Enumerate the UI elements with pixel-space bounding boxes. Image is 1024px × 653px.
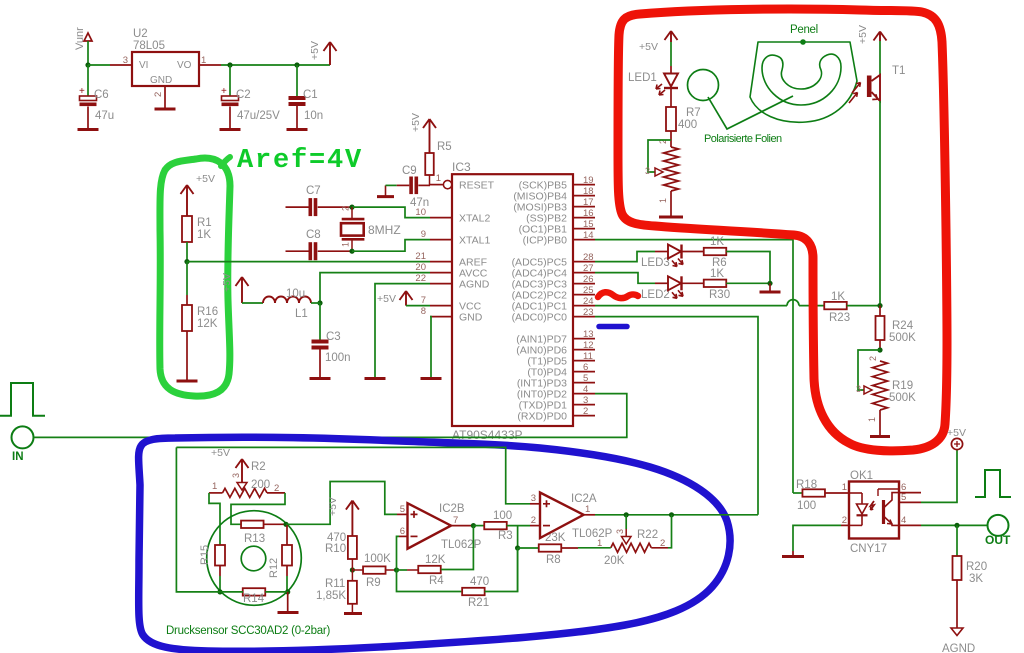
svg-text:24: 24 bbox=[583, 296, 594, 307]
resistor R16 12K bbox=[182, 305, 192, 331]
panel horseshoe foil bbox=[762, 54, 841, 105]
resistor R14 bbox=[243, 588, 266, 595]
IC3 pin 27 (ADC4)PC4 bbox=[573, 272, 595, 274]
capacitor C3 100n bbox=[312, 340, 329, 344]
svg-text:1: 1 bbox=[585, 504, 590, 515]
node AREF divider junction bbox=[184, 259, 189, 264]
node crystal top junction bbox=[349, 205, 354, 210]
wire R19 to ground bbox=[879, 410, 881, 435]
inductor L1 10u bbox=[263, 297, 311, 304]
OK1 lightning bolt bbox=[871, 501, 875, 510]
svg-text:Vunr: Vunr bbox=[74, 27, 86, 50]
ground under C2 bbox=[220, 128, 241, 131]
node R20 top bbox=[954, 523, 959, 528]
svg-text:4: 4 bbox=[583, 384, 588, 395]
svg-text:OUT: OUT bbox=[985, 533, 1011, 547]
capacitor C9 47n bbox=[397, 184, 410, 186]
ground under R11 bbox=[344, 612, 362, 615]
pin 6 OK1 bbox=[899, 492, 921, 494]
svg-text:15: 15 bbox=[583, 219, 594, 230]
svg-text:5: 5 bbox=[583, 373, 588, 384]
svg-text:GND: GND bbox=[150, 75, 172, 86]
pin 7 IC2B output bbox=[451, 525, 473, 527]
+5V supply arrow above R5 bbox=[423, 119, 436, 153]
svg-text:C1: C1 bbox=[303, 89, 318, 101]
wire +5V to LED1 bbox=[670, 42, 672, 66]
IC3 pin 18 (MISO)PB4 bbox=[573, 195, 595, 197]
wire R2 pin1 to bridge left bbox=[209, 493, 220, 545]
wire R3 to IC2A pin2 bbox=[507, 525, 530, 527]
svg-text:LED3: LED3 bbox=[641, 257, 670, 269]
resistor R18 100 bbox=[793, 492, 802, 494]
svg-text:R20: R20 bbox=[966, 561, 987, 573]
wire pin14 to optocoupler column bbox=[595, 240, 793, 493]
hand-drawn blue loop around pressure sensor circuit bbox=[139, 437, 730, 651]
wire crystal node to XTAL2 bbox=[352, 207, 430, 218]
IC3 pin 19 (SCK)PB5 bbox=[573, 184, 595, 186]
wire C1 to ground bbox=[296, 106, 298, 129]
svg-text:6: 6 bbox=[583, 362, 588, 373]
wire bridge bottom rail bbox=[220, 591, 243, 593]
sensor inner circle bbox=[241, 546, 266, 571]
svg-text:1: 1 bbox=[212, 481, 217, 492]
svg-text:100K: 100K bbox=[364, 553, 391, 565]
resistor R30 1K bbox=[682, 282, 705, 284]
pin 2 IC2A bbox=[530, 525, 540, 527]
pin 21 AREF bbox=[430, 261, 452, 263]
IC3 pin 26 (ADC3)PC3 bbox=[573, 283, 595, 285]
svg-text:L1: L1 bbox=[295, 308, 308, 320]
node C2 junction bbox=[227, 62, 232, 67]
pin 2 of U2 bbox=[164, 86, 166, 108]
IC3 pin 11 (T1)PD5 bbox=[573, 360, 595, 362]
svg-text:T1: T1 bbox=[892, 65, 905, 77]
svg-text:3: 3 bbox=[531, 493, 536, 504]
IC3 pin 14 (ICP)PB0 bbox=[573, 239, 595, 241]
svg-text:11: 11 bbox=[583, 351, 593, 362]
pin 10 XTAL2 bbox=[430, 217, 452, 219]
wire C9 to RESET pin bbox=[418, 184, 430, 186]
svg-text:17: 17 bbox=[583, 197, 594, 208]
wire R23 to node bbox=[847, 305, 880, 307]
wire R4 to IC2B output bbox=[441, 526, 473, 570]
svg-text:OK1: OK1 bbox=[850, 470, 873, 482]
wire R11 to ground bbox=[351, 604, 353, 613]
hand-drawn red loop around panel and R24/R19 bbox=[618, 9, 947, 451]
IC3 pin 5 (INT1)PD3 bbox=[573, 382, 595, 384]
+5V supply arrow above R2 bbox=[236, 459, 249, 482]
wire R3 node down to R8 bbox=[517, 526, 519, 592]
+5V supply arrow above L1 bbox=[236, 277, 249, 303]
svg-text:TL062P: TL062P bbox=[441, 539, 482, 551]
wire Vunr down bbox=[87, 41, 89, 65]
wire Vunr to U2 bbox=[88, 64, 110, 66]
wire R1 to junction bbox=[186, 242, 188, 262]
wire AREF bbox=[187, 261, 430, 263]
svg-text:C8: C8 bbox=[306, 229, 321, 241]
svg-text:2: 2 bbox=[868, 356, 878, 361]
svg-text:13: 13 bbox=[583, 329, 594, 340]
wire crystal node to XTAL1 bbox=[352, 240, 430, 252]
svg-text:9: 9 bbox=[421, 229, 426, 240]
svg-text:7: 7 bbox=[453, 515, 458, 526]
svg-text:GND: GND bbox=[459, 311, 483, 323]
resistor R9 100K bbox=[352, 569, 363, 571]
svg-text:R2: R2 bbox=[251, 461, 266, 473]
resistor R1 1K bbox=[182, 216, 192, 242]
wire R19 wiper loop bbox=[858, 350, 880, 390]
svg-text:IC2B: IC2B bbox=[439, 503, 465, 515]
svg-text:19: 19 bbox=[583, 175, 594, 186]
wire pin2 to ground bbox=[793, 525, 841, 551]
svg-text:C7: C7 bbox=[306, 185, 321, 197]
wire trimmer wiper loop bbox=[648, 140, 671, 172]
ground under pin 8 bbox=[421, 377, 442, 380]
capacitor C7 stub lead bbox=[286, 206, 309, 208]
svg-text:47u: 47u bbox=[95, 110, 114, 122]
svg-text:R30: R30 bbox=[709, 289, 730, 301]
+5V supply arrow top-left bbox=[324, 42, 337, 65]
crystal Q1 8MHZ bbox=[342, 218, 365, 221]
svg-text:LED2: LED2 bbox=[641, 289, 670, 301]
svg-text:VO: VO bbox=[177, 60, 192, 71]
svg-text:(ADC0)PC0: (ADC0)PC0 bbox=[512, 311, 568, 323]
svg-text:12K: 12K bbox=[197, 318, 218, 330]
trimmer R22 20K bbox=[622, 537, 632, 545]
ground under LED resistors bbox=[760, 291, 781, 294]
pointer lines to label bbox=[708, 96, 793, 129]
wire R20 to AGND bbox=[956, 580, 958, 628]
svg-text:R15: R15 bbox=[199, 545, 211, 565]
wire C3 to ground bbox=[319, 350, 321, 379]
resistor R10 470 bbox=[348, 536, 357, 559]
capacitor C7 bbox=[309, 198, 313, 216]
svg-text:XTAL2: XTAL2 bbox=[459, 212, 490, 224]
svg-text:2: 2 bbox=[842, 515, 847, 526]
trimmer resistor zigzag bbox=[664, 147, 679, 191]
svg-text:R22: R22 bbox=[637, 529, 658, 541]
svg-text:470: 470 bbox=[470, 576, 489, 588]
pin 7 VCC bbox=[430, 305, 452, 307]
port OUT bbox=[988, 515, 1009, 536]
wire R7 to trimmer bbox=[670, 131, 672, 147]
ground under C6 bbox=[78, 128, 99, 131]
svg-text:+: + bbox=[79, 86, 85, 97]
svg-text:RESET: RESET bbox=[459, 179, 495, 191]
ground under C3 bbox=[310, 377, 331, 380]
pin 2 OK1 bbox=[841, 524, 849, 526]
svg-text:R11: R11 bbox=[325, 578, 345, 590]
IC3 pin 12 (AIN0)PD6 bbox=[573, 349, 595, 351]
panel sketch outline bbox=[750, 42, 857, 122]
wire pin4 to OUT bbox=[921, 524, 988, 526]
wire AVCC bbox=[320, 273, 430, 303]
pin 3 IC2A bbox=[530, 503, 540, 505]
svg-text:VI: VI bbox=[139, 60, 148, 71]
svg-text:AGND: AGND bbox=[942, 643, 975, 653]
resistor R3 100 bbox=[473, 525, 484, 527]
red squiggle annotation at pin25 bbox=[598, 292, 638, 298]
svg-text:28: 28 bbox=[583, 252, 594, 263]
svg-text:R1: R1 bbox=[197, 217, 212, 229]
wire IN to pin4 bbox=[34, 394, 627, 438]
resistor R13 bbox=[241, 521, 263, 528]
output pulse symbol bbox=[975, 470, 1011, 497]
trimmer R2 200 bbox=[237, 483, 247, 491]
resistor R11 1,85K bbox=[351, 570, 353, 581]
svg-text:+5V: +5V bbox=[221, 273, 233, 292]
svg-text:3: 3 bbox=[123, 55, 128, 66]
wire GND pin down bbox=[430, 317, 431, 378]
svg-text:3: 3 bbox=[231, 473, 241, 478]
node bridge bottom-left bbox=[217, 589, 222, 594]
wire crystal stems bbox=[351, 207, 353, 219]
svg-text:1K: 1K bbox=[197, 229, 211, 241]
node bridge right bbox=[283, 522, 288, 527]
pin 9 XTAL1 bbox=[430, 239, 452, 241]
resistor R6 1K bbox=[682, 251, 705, 253]
svg-text:+5V: +5V bbox=[410, 113, 422, 132]
resistor R4 12K bbox=[397, 569, 408, 571]
svg-text:IN: IN bbox=[12, 451, 24, 463]
node R8 tap bbox=[515, 545, 520, 550]
resistor R20 3K bbox=[956, 525, 958, 556]
svg-text:10n: 10n bbox=[304, 110, 323, 122]
svg-text:1: 1 bbox=[658, 198, 668, 203]
svg-text:U2: U2 bbox=[133, 28, 148, 40]
svg-text:27: 27 bbox=[583, 263, 594, 274]
svg-text:R10: R10 bbox=[325, 543, 346, 555]
svg-text:2: 2 bbox=[583, 406, 588, 417]
pin 6 IC2B bbox=[399, 535, 408, 537]
+5V supply arrow at VCC bbox=[400, 291, 413, 306]
resistor R21 470 bbox=[462, 588, 485, 595]
port IN bbox=[12, 426, 34, 448]
svg-text:R14: R14 bbox=[243, 593, 265, 605]
OK1 internal phototransistor bbox=[882, 500, 885, 524]
node panel top bbox=[800, 39, 806, 45]
svg-text:XTAL1: XTAL1 bbox=[459, 234, 490, 246]
IC3 pin 23 (ADC0)PC0 bbox=[573, 316, 595, 318]
svg-text:R9: R9 bbox=[366, 577, 381, 589]
wire pin27 to LED2 bbox=[595, 273, 655, 284]
ground under OK1 bbox=[792, 551, 794, 556]
optocoupler OK1 CNY17 bbox=[849, 482, 899, 539]
capacitor C6 47u bbox=[80, 96, 97, 101]
resistor R24 500K bbox=[879, 306, 881, 316]
trimmer R19 500K zigzag bbox=[873, 361, 888, 410]
svg-text:+5V: +5V bbox=[639, 41, 658, 53]
svg-text:100: 100 bbox=[797, 500, 816, 512]
svg-text:2: 2 bbox=[153, 92, 164, 97]
wire T1 emitter down bbox=[879, 101, 881, 306]
ground left of C9 bbox=[377, 195, 394, 198]
wire +5V to L1 bbox=[242, 302, 263, 304]
wire bridge left side bbox=[176, 447, 220, 592]
svg-text:LED1: LED1 bbox=[628, 72, 657, 84]
IC3 pin 3 (TXD)PD1 bbox=[573, 404, 595, 406]
wire C7 to crystal node bbox=[318, 206, 352, 208]
IC3 pin 28 (ADC5)PC5 bbox=[573, 261, 595, 263]
svg-text:1K: 1K bbox=[710, 236, 724, 248]
ground under bridge bbox=[287, 592, 289, 612]
wire bridge right node to IC2B pin5 bbox=[286, 482, 397, 525]
hand-drawn green loop around R1/R16 bbox=[160, 158, 230, 396]
wire pin28 to LED3 bbox=[595, 252, 655, 262]
svg-text:1K: 1K bbox=[831, 291, 845, 303]
wire C8 to crystal node bbox=[318, 250, 352, 252]
svg-text:1,85K: 1,85K bbox=[316, 590, 346, 602]
svg-text:IC2A: IC2A bbox=[571, 493, 597, 505]
svg-text:R19: R19 bbox=[892, 380, 913, 392]
svg-text:+5V: +5V bbox=[947, 427, 966, 439]
svg-text:1: 1 bbox=[842, 482, 847, 493]
svg-text:47n: 47n bbox=[410, 197, 429, 209]
wire to C2 bbox=[229, 65, 231, 96]
svg-text:3: 3 bbox=[856, 384, 861, 394]
blue dash annotation at pin23 bbox=[599, 324, 627, 330]
IC3 pin 16 (SS)PB2 bbox=[573, 217, 595, 219]
wire R2 pin2 to R13 bbox=[231, 493, 285, 524]
svg-text:+5V: +5V bbox=[196, 173, 215, 185]
svg-text:23: 23 bbox=[583, 307, 594, 318]
wire to T1 collector bbox=[879, 41, 881, 75]
svg-text:Drucksensor SCC30AD2 (0-2bar): Drucksensor SCC30AD2 (0-2bar) bbox=[166, 625, 330, 637]
svg-text:R5: R5 bbox=[437, 141, 452, 153]
svg-text:1: 1 bbox=[867, 417, 877, 422]
svg-text:3: 3 bbox=[615, 529, 625, 534]
voltage regulator U2 78L05 bbox=[132, 52, 199, 86]
wire pin23 feedback bbox=[595, 317, 758, 515]
resistor R12 bbox=[286, 524, 288, 545]
IC3 pin 6 (T0)PD4 bbox=[573, 371, 595, 373]
wire VCC bbox=[406, 305, 430, 307]
svg-text:78L05: 78L05 bbox=[133, 40, 165, 52]
wire trimmer to ground bbox=[670, 191, 672, 216]
wire R13 to node bbox=[264, 523, 287, 525]
op-amp IC2A TL062P bbox=[540, 493, 584, 539]
resistor R7 400 bbox=[666, 107, 676, 131]
wire R30 to gnd node bbox=[726, 282, 770, 284]
svg-text:200: 200 bbox=[251, 479, 270, 491]
svg-text:(RXD)PD0: (RXD)PD0 bbox=[517, 410, 567, 422]
ground under U2 bbox=[155, 108, 176, 111]
node IC2B output bbox=[471, 523, 476, 528]
wire R16 to ground bbox=[186, 331, 188, 380]
wire R12 to bottom bbox=[286, 566, 288, 577]
phototransistor T1 bbox=[867, 76, 872, 98]
svg-text:3: 3 bbox=[645, 166, 650, 176]
+5V supply arrow above R10 bbox=[346, 501, 359, 536]
svg-text:12K: 12K bbox=[425, 554, 446, 566]
svg-text:1: 1 bbox=[436, 173, 441, 184]
svg-text:+5V: +5V bbox=[377, 293, 396, 305]
svg-text:+5V: +5V bbox=[211, 447, 230, 459]
svg-text:R3: R3 bbox=[498, 530, 513, 542]
pin 1 of U2 bbox=[199, 64, 221, 66]
svg-text:100n: 100n bbox=[325, 352, 351, 364]
wire R6 to gnd node bbox=[726, 252, 770, 284]
svg-text:3K: 3K bbox=[969, 573, 983, 585]
wire junction to C3 bbox=[319, 303, 321, 340]
svg-text:3: 3 bbox=[583, 395, 588, 406]
capacitor C8 bbox=[309, 242, 313, 260]
capacitor C2 47u/25V bbox=[222, 96, 239, 101]
pin 3 of U2 bbox=[110, 64, 132, 66]
svg-text:C3: C3 bbox=[326, 331, 341, 343]
svg-text:TL062P: TL062P bbox=[572, 528, 613, 540]
svg-text:R7: R7 bbox=[686, 107, 701, 119]
svg-text:22: 22 bbox=[415, 273, 426, 284]
svg-text:8MHZ: 8MHZ bbox=[368, 223, 401, 237]
IC3 pin 15 (OC1)PB1 bbox=[573, 228, 595, 230]
node R24 top bbox=[877, 303, 882, 308]
ground under C1 bbox=[287, 128, 308, 131]
input pulse symbol bbox=[0, 383, 45, 416]
wire C2 to ground bbox=[229, 107, 231, 130]
svg-text:8: 8 bbox=[421, 306, 426, 317]
svg-text:R12: R12 bbox=[268, 558, 280, 578]
wire R22 wiper bbox=[625, 515, 627, 529]
sensor bridge circle bbox=[207, 511, 302, 606]
svg-text:500K: 500K bbox=[889, 392, 916, 404]
svg-text:+5V: +5V bbox=[857, 25, 869, 44]
wire R21 to R8 node bbox=[485, 548, 518, 592]
wire IC2A output row bbox=[595, 514, 758, 516]
svg-text:R21: R21 bbox=[468, 597, 489, 609]
svg-text:R13: R13 bbox=[244, 533, 265, 545]
foil circle bbox=[688, 70, 719, 101]
wire to C6 bbox=[87, 65, 89, 96]
svg-text:16: 16 bbox=[583, 208, 594, 219]
node R22 wiper tap bbox=[624, 512, 629, 517]
svg-text:26: 26 bbox=[583, 274, 594, 285]
wire R22 pin2 up bbox=[668, 515, 672, 548]
svg-text:21: 21 bbox=[415, 251, 426, 262]
svg-text:1: 1 bbox=[341, 242, 351, 247]
wire R5 to reset bbox=[429, 175, 431, 185]
node R9 right bbox=[386, 569, 397, 571]
wire R9 node to IC2B pin6 bbox=[397, 536, 400, 570]
ground under AGND bbox=[365, 377, 386, 380]
wire junction to R16 bbox=[186, 262, 188, 295]
svg-text:CNY17: CNY17 bbox=[850, 543, 887, 555]
pin 1 IC2A output bbox=[584, 514, 595, 516]
svg-text:1K: 1K bbox=[710, 268, 724, 280]
+5V supply arrow above LED1 bbox=[665, 31, 678, 42]
node L1 junction bbox=[317, 300, 322, 305]
wire R15 to bottom bbox=[219, 566, 221, 577]
wire bridge top rail to IC2A bbox=[176, 447, 530, 503]
svg-text:+5V: +5V bbox=[309, 41, 321, 60]
resistor R23 1K bbox=[824, 302, 847, 309]
svg-text:5: 5 bbox=[400, 504, 405, 515]
pin 1 RESET with bubble bbox=[430, 184, 444, 186]
ground under trimmer bbox=[659, 216, 683, 219]
resistor R15 bbox=[215, 545, 225, 566]
trimmer wiper arrow bbox=[655, 168, 663, 176]
resistor R8 23K bbox=[518, 547, 539, 549]
svg-text:20K: 20K bbox=[604, 555, 625, 567]
svg-text:R23: R23 bbox=[829, 312, 850, 324]
+5V circle supply bbox=[951, 438, 962, 449]
svg-text:100: 100 bbox=[493, 510, 512, 522]
wire AGND down bbox=[375, 284, 430, 378]
wire R9 node to R21 bbox=[397, 570, 462, 592]
svg-text:2: 2 bbox=[660, 538, 665, 549]
svg-text:10u: 10u bbox=[286, 288, 305, 300]
svg-text:R16: R16 bbox=[197, 306, 218, 318]
